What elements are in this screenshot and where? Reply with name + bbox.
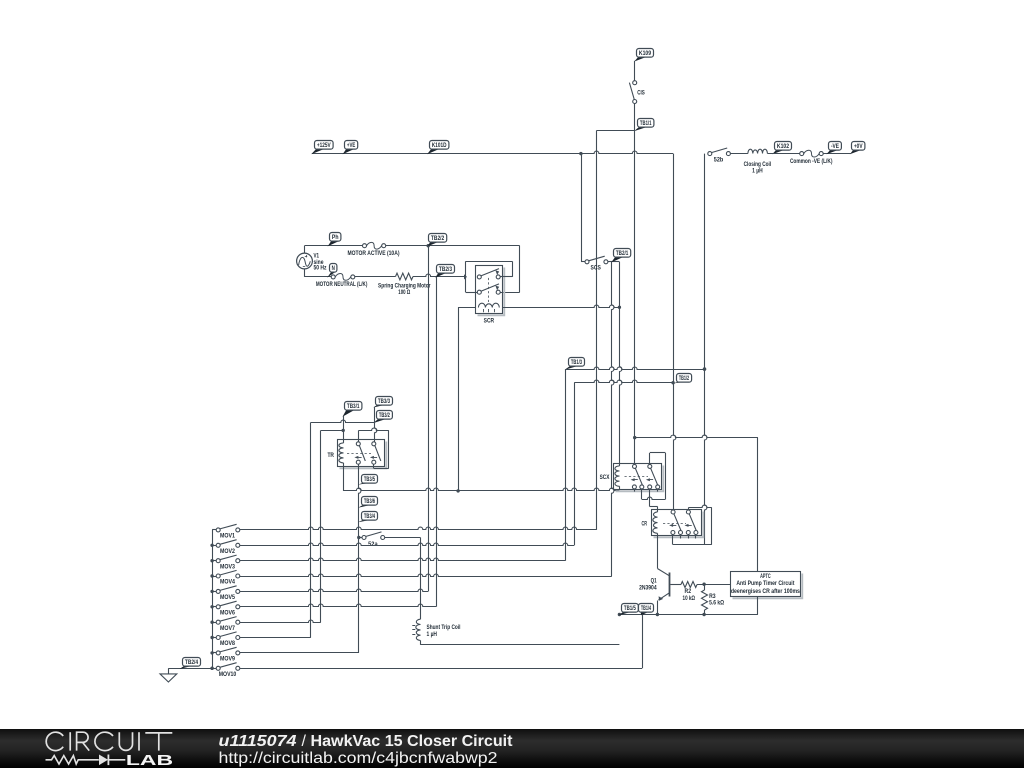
switch MOV9 xyxy=(210,651,213,654)
wire MOV1 row xyxy=(240,527,597,529)
wire TB1/1 main vertical down to SCX xyxy=(634,131,636,465)
svg-text:TB2/2: TB2/2 xyxy=(431,235,445,242)
wire APTC bottom to emitter rail xyxy=(757,596,759,615)
wire coil to fuse xyxy=(767,153,799,155)
svg-text:TR: TR xyxy=(327,452,334,459)
wire K109 to CIS xyxy=(634,61,636,81)
svg-text:TB1/2: TB1/2 xyxy=(679,375,690,382)
node TB2/3 xyxy=(435,265,454,278)
TR dashed actuation line xyxy=(347,453,371,455)
svg-text:K102: K102 xyxy=(777,143,790,150)
resistor Spring Charging Motor 100 Ohm xyxy=(396,273,414,280)
svg-text:5.6 kΩ: 5.6 kΩ xyxy=(709,600,724,607)
relay SCR box xyxy=(478,268,505,316)
wire 52b branch vertical xyxy=(705,154,707,545)
box APTC Anti Pump Timer Circuit xyxy=(733,574,803,599)
svg-text:+0V: +0V xyxy=(854,143,863,150)
junction on rail at SCS branch xyxy=(579,152,582,155)
node TB3/4 xyxy=(358,512,377,523)
TR switch 1 xyxy=(356,442,360,446)
node +VE xyxy=(343,141,358,155)
svg-text:LAB: LAB xyxy=(126,752,173,768)
svg-text:Anti Pump Timer Circuit: Anti Pump Timer Circuit xyxy=(736,580,795,587)
switch MOV5 xyxy=(210,590,213,593)
inductor Shunt Trip Coil 1 uH xyxy=(416,619,421,640)
wire SCS to TB2/1 xyxy=(608,261,620,263)
svg-text:/: / xyxy=(302,733,307,750)
inductor Closing Coil 1 uH xyxy=(748,149,768,153)
wire MOV5 row xyxy=(240,589,428,591)
svg-text:MOV8: MOV8 xyxy=(220,640,235,647)
svg-text:APTC: APTC xyxy=(760,573,771,580)
wire TB3/3-TB3/2 vertical to TR switch 2 xyxy=(375,407,377,444)
wire Q1 emitter down xyxy=(657,601,659,615)
wire rail to SCS xyxy=(581,154,583,262)
wire TB3/1 to TR coil xyxy=(343,416,345,443)
node TB2/1 xyxy=(611,249,631,263)
wire TB1/3 row xyxy=(565,367,704,369)
wire 52a to shunt trip coil xyxy=(385,537,421,539)
SCR coil left wire xyxy=(458,307,475,309)
svg-text:+125V: +125V xyxy=(317,142,332,149)
wire TB2/2 vertical down to MOV5 xyxy=(428,246,430,592)
wire MOV2 row xyxy=(240,543,574,545)
wire R2 to R3/APTC xyxy=(697,584,731,586)
wire down right of SCR xyxy=(519,246,521,293)
switch MOV10 xyxy=(210,667,213,670)
wire TR coil bottom to SCX coil (long horizontal) xyxy=(343,463,345,491)
SCR switch 1 xyxy=(477,275,481,279)
node K102 xyxy=(772,142,791,155)
fuse MOTOR NEUTRAL (L/K) xyxy=(331,275,335,279)
wire 52a column down to MOV9 xyxy=(358,538,360,654)
resistor R3 5.6 kOhm xyxy=(704,584,706,590)
MOV bus vertical xyxy=(212,530,214,668)
junction TB1/1 vertical / APTC feed xyxy=(633,436,636,439)
wire TB2/1 vertical down to MOV4 xyxy=(612,262,614,576)
svg-text:deenergises CR after 100ms: deenergises CR after 100ms xyxy=(731,588,800,595)
svg-text:CR: CR xyxy=(642,521,648,528)
svg-text:TB3/6: TB3/6 xyxy=(364,498,376,505)
relay SCX box xyxy=(616,466,664,492)
SCX switch A xyxy=(633,464,637,468)
wire resistor to SCR input xyxy=(413,274,464,276)
wire SCS net down to SCX coil xyxy=(620,262,622,463)
SCX dashed actuation line xyxy=(625,476,649,478)
svg-text:N: N xyxy=(332,265,335,272)
svg-text:TB3/2: TB3/2 xyxy=(379,412,390,419)
svg-text:TB3/5: TB3/5 xyxy=(364,476,376,483)
svg-text:2N3904: 2N3904 xyxy=(639,584,657,591)
svg-text:Ph: Ph xyxy=(332,234,339,241)
svg-text:TB3/1: TB3/1 xyxy=(347,403,360,410)
voltage source V1 xyxy=(297,253,313,269)
fuse MOTOR ACTIVE (10A) xyxy=(363,244,367,248)
wire jog vertical down to MOV1 xyxy=(596,131,598,530)
wire MOV6 row xyxy=(240,604,436,606)
wire MOV9 row xyxy=(240,652,359,654)
svg-text:K109: K109 xyxy=(639,50,652,57)
wire V1 top to motor active xyxy=(304,246,306,253)
node Ph xyxy=(328,233,341,247)
relay CR box xyxy=(654,512,704,538)
node TB1/5 xyxy=(619,604,639,616)
svg-text:TB1/3: TB1/3 xyxy=(571,359,583,366)
junction 52a branch xyxy=(357,536,360,539)
wire rail end down to CR switch C xyxy=(674,154,676,510)
switch MOV8 xyxy=(210,636,213,639)
SCR coil xyxy=(478,303,499,307)
CR switch C xyxy=(671,510,675,514)
SCR actuation dashed line xyxy=(488,278,490,302)
node +0V xyxy=(850,142,865,155)
svg-text:TB2/3: TB2/3 xyxy=(439,266,453,273)
svg-text:TB1/4: TB1/4 xyxy=(641,605,652,612)
svg-text:MOTOR NEUTRAL (L/K): MOTOR NEUTRAL (L/K) xyxy=(316,281,368,288)
wire CR C-NC to outer loop xyxy=(672,535,674,545)
wire TB1/1 jog xyxy=(597,130,635,132)
svg-text:SCR: SCR xyxy=(484,317,495,324)
svg-text:Common -VE (L/K): Common -VE (L/K) xyxy=(790,158,833,165)
wire into SCR switch 2 xyxy=(500,292,520,294)
svg-text:100 Ω: 100 Ω xyxy=(398,289,410,296)
CR coil xyxy=(657,509,659,512)
svg-text:TB3/3: TB3/3 xyxy=(378,398,391,405)
svg-text:1 µH: 1 µH xyxy=(427,631,438,638)
node N xyxy=(327,264,337,278)
switch CIS xyxy=(633,81,637,85)
SCR switch 2 xyxy=(477,290,481,294)
svg-text:http://circuitlab.com/c4jbcnfw: http://circuitlab.com/c4jbcnfwabwp2 xyxy=(219,750,498,767)
svg-text:TB2/1: TB2/1 xyxy=(616,250,629,257)
wire MOV3 row xyxy=(240,558,566,560)
ground xyxy=(168,668,170,674)
switch MOV4 xyxy=(210,574,213,577)
wire MOV8 row xyxy=(240,637,311,639)
svg-text:-VE: -VE xyxy=(831,143,839,150)
node TB2/2 xyxy=(428,234,447,247)
svg-text:TB1/1: TB1/1 xyxy=(640,120,652,127)
switch 52a xyxy=(359,537,362,539)
resistor R2 10 kOhm xyxy=(681,582,697,588)
wire +125V/+VE/K101D top rail xyxy=(312,151,673,153)
node TB1/3 xyxy=(565,358,585,370)
SCX coil xyxy=(619,463,621,466)
wire TB1/3 vertical down to MOV3 xyxy=(565,369,567,561)
svg-text:1 µH: 1 µH xyxy=(752,167,763,174)
switch SCS xyxy=(585,260,589,264)
TR coil xyxy=(339,443,344,463)
node +125V xyxy=(311,141,333,155)
svg-text:SCX: SCX xyxy=(600,474,610,481)
svg-text:+VE: +VE xyxy=(347,142,355,149)
node K101D xyxy=(427,141,449,155)
wire TB1/2 row xyxy=(574,380,673,382)
relay TR box xyxy=(340,442,387,469)
SCX switch B xyxy=(648,464,652,468)
svg-text:TB2/4: TB2/4 xyxy=(185,659,199,666)
wire CR coil bottom to Q1 collector xyxy=(657,536,659,569)
svg-text:MOV5: MOV5 xyxy=(220,594,235,601)
CircuitLab footer bar xyxy=(0,729,1024,768)
wire motor active to TB2/2 and SCR branch xyxy=(386,245,520,247)
svg-text:52a: 52a xyxy=(368,541,378,548)
node TB3/2 xyxy=(373,411,392,424)
wire emitter/R3/APTC bottom rail xyxy=(619,614,758,616)
svg-text:MOV9: MOV9 xyxy=(220,656,235,663)
wire SCX A-NO to outer loop xyxy=(641,489,643,499)
fuse Common -VE (L/K) xyxy=(800,152,804,156)
node TB3/6 xyxy=(358,497,377,508)
switch MOV6 xyxy=(210,605,213,608)
SCR coil right wire xyxy=(502,305,619,307)
svg-text:TB3/4: TB3/4 xyxy=(364,513,376,520)
node TB1/2 xyxy=(673,374,691,384)
wire TB1/4 down to MOV10 xyxy=(642,615,644,669)
node K109 xyxy=(634,49,653,62)
wire V1 bottom / motor neutral xyxy=(304,269,306,277)
SCX stub contacts xyxy=(634,489,636,492)
wire SCX B-NC to CR coil xyxy=(649,489,651,507)
svg-text:u1115074: u1115074 xyxy=(219,733,297,750)
svg-text:CIS: CIS xyxy=(637,90,645,97)
wire MOV7 feed (horizontal2) xyxy=(321,430,343,432)
svg-text:MOV7: MOV7 xyxy=(220,625,235,632)
svg-text:52b: 52b xyxy=(714,156,724,163)
wire MOV8 feed (horizontal1) xyxy=(311,420,374,422)
wire CIS to TB1/1 xyxy=(634,104,636,131)
svg-text:MOTOR ACTIVE (10A): MOTOR ACTIVE (10A) xyxy=(348,250,400,257)
wire SCR coil left down to shunt net xyxy=(458,307,460,491)
switch MOV3 xyxy=(210,559,213,562)
svg-text:MOV4: MOV4 xyxy=(220,579,235,586)
svg-text:MOV6: MOV6 xyxy=(220,610,235,617)
svg-text:SCS: SCS xyxy=(591,264,602,271)
svg-text:10 kΩ: 10 kΩ xyxy=(683,595,696,602)
switch MOV2 xyxy=(210,544,213,547)
wire MOV10 row xyxy=(240,668,642,670)
TR switch 2 xyxy=(372,442,376,446)
wire TB1/2 vertical down to MOV2 xyxy=(574,383,576,546)
node TB1/4 xyxy=(639,604,654,616)
switch MOV7 xyxy=(210,621,213,624)
svg-text:MOV2: MOV2 xyxy=(220,548,235,555)
wire TB2/3 vertical down to MOV6 xyxy=(436,277,438,607)
CR dashed actuation line xyxy=(663,523,686,525)
node TB3/5 xyxy=(358,475,377,485)
svg-text:MOV10: MOV10 xyxy=(219,671,237,678)
node TB3/1 xyxy=(343,402,362,417)
svg-text:TB1/5: TB1/5 xyxy=(624,605,636,612)
CR switch D xyxy=(686,510,690,514)
CR stub contacts xyxy=(680,535,682,539)
switch MOV1 xyxy=(212,529,216,531)
wire MOV4 row xyxy=(240,574,612,576)
wire TB1/1 net to APTC xyxy=(635,435,758,437)
svg-text:50 Hz: 50 Hz xyxy=(314,265,327,272)
SCR outer loop wiring xyxy=(465,261,467,292)
wire neutral to resistor xyxy=(355,276,396,278)
svg-text:K101D: K101D xyxy=(432,142,447,149)
wire TR switch1 bottom column xyxy=(359,464,361,537)
transistor Q1 2N3904 xyxy=(669,573,671,597)
wire fuse to -VE/+0V xyxy=(823,153,850,155)
wire MOV7 row xyxy=(240,620,321,622)
node TB1/1 xyxy=(634,119,654,132)
svg-text:MOV1: MOV1 xyxy=(220,533,235,540)
svg-text:MOV3: MOV3 xyxy=(220,563,235,570)
node TB2/4 xyxy=(180,658,201,670)
junction TB2/2 xyxy=(427,244,430,247)
node -VE xyxy=(826,142,841,155)
wire ground to MOV10 xyxy=(168,668,212,670)
wire Q1 base to R2 xyxy=(670,584,681,586)
wire shunt coil bottom to TB1/5 xyxy=(420,641,422,645)
wire 52b to closing coil xyxy=(730,153,748,155)
TR top-right loop wiring xyxy=(358,430,360,441)
svg-text:HawkVac 15 Closer Circuit: HawkVac 15 Closer Circuit xyxy=(311,733,514,750)
switch 52b xyxy=(708,152,712,156)
node TB3/3 xyxy=(373,397,392,408)
